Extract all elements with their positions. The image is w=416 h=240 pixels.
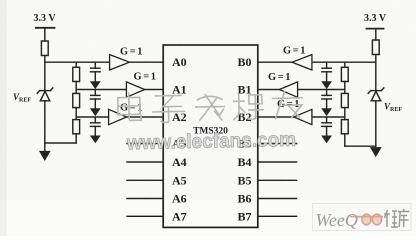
node C wire (left row 3 horizontal) xyxy=(76,116,108,118)
power rail bar (left 3.3V) xyxy=(36,27,55,29)
wire: divider bottom to return (right) xyxy=(344,134,346,146)
op-amp buffer G=1 (left row3) xyxy=(109,109,127,124)
wire: zener to ground (right) xyxy=(375,101,377,146)
IC U1 TMS320 body xyxy=(163,45,258,227)
resistor divider R middle (right) xyxy=(341,93,348,107)
node F wire (right row 3 horizontal) xyxy=(312,116,345,118)
wire: divider node F (right) xyxy=(344,108,346,120)
wire: pin B3 stub xyxy=(258,143,297,145)
capacitor C4 (right row1) xyxy=(326,62,328,68)
zener diode VREF (right) anode triangle xyxy=(371,91,380,100)
wire: divider node B (left) xyxy=(75,82,77,94)
op-amp buffer G=1 (right row3) xyxy=(294,109,312,124)
wire: divider bottom to return (left) xyxy=(75,134,77,143)
wire: right bottom return xyxy=(345,145,376,147)
wire: pin A5 stub xyxy=(127,179,163,181)
wire: B0 to buffer4 xyxy=(258,61,292,63)
ground (left) xyxy=(44,143,46,152)
zener diode VREF (right) cathode bar xyxy=(371,90,382,92)
resistor (left supply) xyxy=(41,41,48,56)
wire: pin B5 stub xyxy=(258,179,297,181)
node B wire (left row 2 horizontal) xyxy=(76,89,126,91)
wire: resistor to zener / node A (left main vertical) xyxy=(44,56,46,91)
zener diode VREF (left) anode triangle xyxy=(40,91,49,100)
resistor divider R middle (left) xyxy=(73,93,80,107)
capacitor C1 (left row1) xyxy=(94,62,96,68)
wire: pin A3 stub xyxy=(127,143,163,145)
wire: pin A4 stub xyxy=(127,161,163,163)
watermark weeqoo oo ovals xyxy=(362,214,371,225)
op-amp buffer G=1 (right row2) xyxy=(279,82,297,97)
wire: buffer1 output to A0 xyxy=(129,61,163,63)
wire: rail to resistor (right) xyxy=(375,29,377,40)
op-amp buffer G=1 (right row1) xyxy=(292,55,312,70)
watermark weeqoo box xyxy=(313,204,412,231)
node A wire: left reference node horizontal xyxy=(45,61,110,63)
resistor divider R top (left) xyxy=(75,62,77,67)
node D wire: right reference node horizontal xyxy=(312,61,376,63)
capacitor C6 (right row3) xyxy=(326,117,328,123)
wire: B2 to buffer6 xyxy=(258,116,294,118)
watermark chinese characters (drawn strokes) xyxy=(118,89,304,124)
svg-text:A7: A7 xyxy=(172,209,187,223)
node E wire (right row 2 horizontal) xyxy=(298,89,345,91)
wire: pin B6 stub xyxy=(258,198,297,200)
resistor divider R bottom (left) xyxy=(73,120,80,134)
svg-text:WeeQ: WeeQ xyxy=(316,210,358,230)
capacitor C3 (left row3) xyxy=(94,117,96,123)
wire: B1 to buffer5 xyxy=(258,89,279,91)
wire: pin A7 stub xyxy=(127,215,163,217)
wire: left bottom return xyxy=(45,142,76,144)
wire: divider node C (left) xyxy=(75,108,77,120)
wire: zener to ground rail (left) xyxy=(44,101,46,143)
wire: buffer3 output to A2 xyxy=(127,116,164,118)
resistor divider R bottom (right) xyxy=(341,120,348,134)
capacitor C2 (left row2) xyxy=(94,90,96,96)
capacitor C5 (right row2) xyxy=(326,90,328,96)
resistor divider R top (right) xyxy=(344,62,346,67)
op-amp buffer G=1 (left row1) xyxy=(110,55,130,70)
wire: pin A6 stub xyxy=(127,198,163,200)
op-amp buffer G=1 (left row2) xyxy=(126,82,144,97)
wire: rail to resistor xyxy=(44,28,46,41)
ground (right) xyxy=(371,148,380,156)
wire: resistor to zener node (right main vertical) xyxy=(375,55,377,91)
watermark weeqoo cjk glyphs xyxy=(384,209,410,227)
power rail bar (right 3.3V) xyxy=(367,28,384,30)
wire: divider node E (right) xyxy=(344,82,346,94)
zener diode VREF (left) cathode bar xyxy=(40,90,51,92)
wire: pin B4 stub xyxy=(258,161,297,163)
wire: buffer2 output to A1 xyxy=(145,89,164,91)
svg-text:B7: B7 xyxy=(238,209,252,223)
wire: pin B7 stub xyxy=(258,215,297,217)
resistor (right supply) xyxy=(372,40,379,55)
